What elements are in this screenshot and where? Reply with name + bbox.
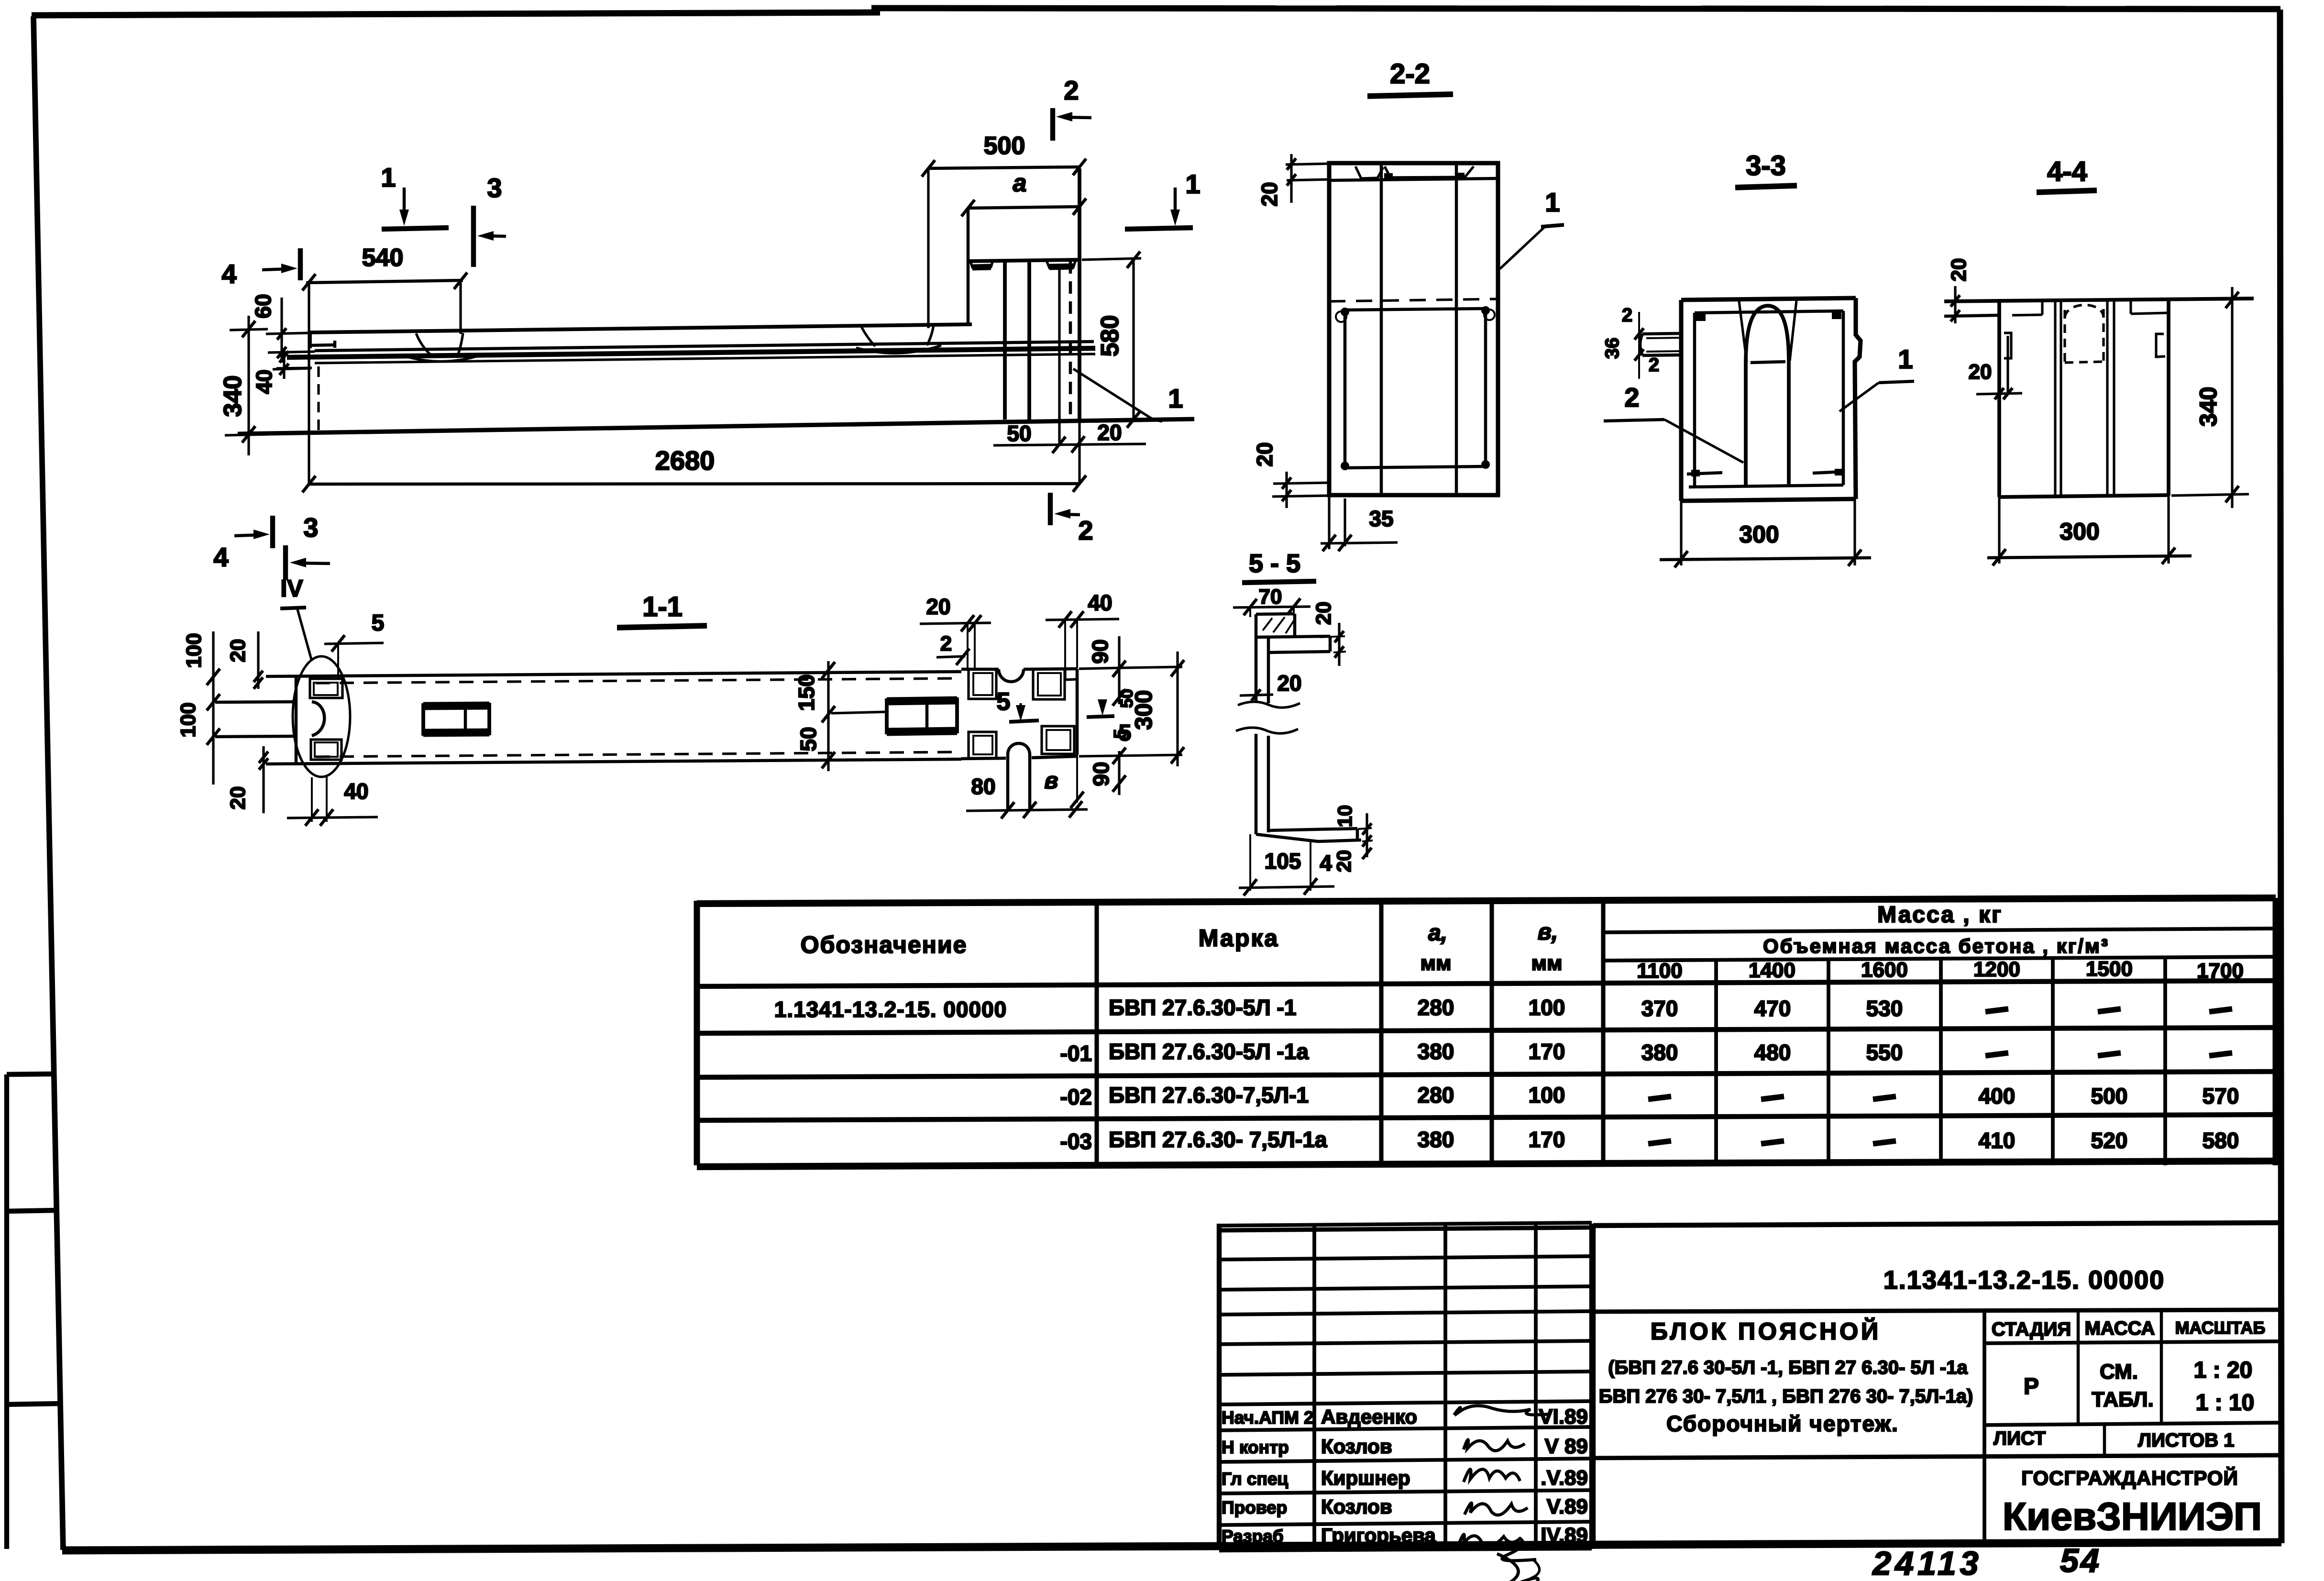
svg-text:5: 5 — [997, 688, 1011, 716]
svg-text:580: 580 — [2203, 1128, 2239, 1153]
svg-text:а,: а, — [1428, 920, 1447, 946]
svg-text:20: 20 — [1312, 602, 1335, 625]
svg-text:V 89: V 89 — [1544, 1435, 1588, 1458]
svg-text:Н контр: Н контр — [1222, 1437, 1289, 1457]
svg-text:1400: 1400 — [1749, 959, 1795, 982]
svg-text:2680: 2680 — [655, 445, 715, 475]
svg-text:2: 2 — [1649, 354, 1659, 376]
svg-text:570: 570 — [2203, 1083, 2239, 1108]
svg-text:1100: 1100 — [1637, 959, 1682, 983]
svg-text:ТАБЛ.: ТАБЛ. — [2092, 1388, 2154, 1411]
svg-text:90: 90 — [1088, 639, 1112, 663]
svg-text:БВП 27.6.30-5Л -1а: БВП 27.6.30-5Л -1а — [1109, 1039, 1309, 1064]
svg-text:1: 1 — [1168, 383, 1183, 413]
svg-text:3: 3 — [303, 512, 318, 542]
svg-text:20: 20 — [226, 786, 250, 810]
svg-text:70: 70 — [1259, 585, 1282, 608]
svg-text:МАСШТАБ: МАСШТАБ — [2175, 1318, 2266, 1338]
svg-text:Козлов: Козлов — [1321, 1435, 1392, 1458]
svg-text:Сборочный чертеж.: Сборочный чертеж. — [1666, 1411, 1899, 1436]
svg-text:170: 170 — [1529, 1127, 1565, 1152]
svg-text:520: 520 — [2091, 1128, 2128, 1153]
svg-text:VI.89: VI.89 — [1539, 1405, 1588, 1428]
svg-text:20: 20 — [1097, 420, 1122, 445]
svg-text:540: 540 — [362, 244, 404, 272]
svg-text:90: 90 — [1089, 762, 1113, 786]
svg-text:5: 5 — [1110, 729, 1130, 739]
svg-text:36: 36 — [1602, 338, 1623, 359]
svg-text:300: 300 — [1739, 521, 1779, 548]
svg-text:Р: Р — [2024, 1374, 2039, 1399]
svg-text:500: 500 — [2091, 1083, 2128, 1108]
svg-text:БВП 27.6.30- 7,5Л-1а: БВП 27.6.30- 7,5Л-1а — [1109, 1127, 1327, 1152]
svg-text:МАССА: МАССА — [2085, 1318, 2155, 1339]
svg-text:400: 400 — [1979, 1083, 2016, 1108]
svg-text:мм: мм — [1531, 951, 1562, 975]
svg-text:470: 470 — [1754, 996, 1791, 1021]
svg-text:3: 3 — [487, 173, 502, 203]
svg-text:.V.89: .V.89 — [1541, 1466, 1588, 1490]
svg-text:в: в — [1045, 768, 1058, 794]
svg-text:2: 2 — [940, 632, 952, 655]
svg-text:20: 20 — [1333, 850, 1355, 873]
svg-text:10: 10 — [1333, 805, 1356, 828]
svg-text:1.1341-13.2-15. 00000: 1.1341-13.2-15. 00000 — [1883, 1266, 2165, 1294]
svg-text:80: 80 — [971, 774, 995, 799]
svg-text:20: 20 — [1969, 360, 1992, 384]
svg-text:20: 20 — [1252, 442, 1277, 466]
svg-text:Объемная масса бетона , кг/м: Объемная масса бетона , кг/м³ — [1763, 935, 2109, 957]
svg-text:1: 1 — [1898, 344, 1913, 374]
svg-text:5: 5 — [372, 610, 385, 636]
svg-text:1: 1 — [1185, 169, 1200, 199]
svg-text:280: 280 — [1418, 1083, 1454, 1107]
svg-text:580: 580 — [1096, 315, 1124, 357]
svg-text:300: 300 — [2060, 518, 2099, 545]
svg-text:1-1: 1-1 — [642, 591, 683, 622]
svg-text:a: a — [1013, 169, 1027, 197]
svg-text:ЛИСТ: ЛИСТ — [1994, 1428, 2046, 1449]
svg-text:СТАДИЯ: СТАДИЯ — [1992, 1319, 2071, 1340]
svg-text:-02: -02 — [1060, 1084, 1092, 1109]
svg-text:380: 380 — [1418, 1039, 1454, 1064]
svg-text:Козлов: Козлов — [1321, 1495, 1392, 1518]
svg-text:500: 500 — [984, 132, 1025, 160]
svg-text:1: 1 — [381, 162, 396, 192]
svg-text:Нач.АПМ 2: Нач.АПМ 2 — [1222, 1408, 1314, 1427]
svg-text:20: 20 — [1947, 258, 1971, 282]
svg-text:4: 4 — [1320, 851, 1332, 875]
svg-text:Григорьева: Григорьева — [1321, 1524, 1436, 1547]
svg-text:1 : 20: 1 : 20 — [2194, 1358, 2253, 1383]
svg-text:1.1341-13.2-15. 00000: 1.1341-13.2-15. 00000 — [774, 997, 1007, 1022]
svg-text:Киршнер: Киршнер — [1321, 1467, 1410, 1489]
svg-text:2: 2 — [1622, 305, 1632, 326]
svg-text:480: 480 — [1754, 1040, 1791, 1065]
svg-text:380: 380 — [1641, 1040, 1678, 1065]
svg-text:35: 35 — [1369, 506, 1393, 531]
svg-text:20: 20 — [1257, 182, 1282, 206]
svg-text:БВП 276 30- 7,5Л1 , БВП 276 3: БВП 276 30- 7,5Л1 , БВП 276 30- 7,5Л-1а) — [1599, 1386, 1973, 1407]
svg-text:40: 40 — [1088, 590, 1112, 615]
svg-text:-01: -01 — [1060, 1041, 1092, 1066]
svg-text:410: 410 — [1979, 1128, 2016, 1153]
svg-text:4: 4 — [213, 542, 228, 572]
svg-text:50: 50 — [796, 727, 821, 751]
svg-text:54: 54 — [2060, 1542, 2101, 1579]
svg-text:мм: мм — [1420, 951, 1451, 975]
svg-text:ГОСГРАЖДАНСТРОЙ: ГОСГРАЖДАНСТРОЙ — [2021, 1466, 2238, 1489]
svg-text:Марка: Марка — [1199, 925, 1279, 951]
svg-text:2: 2 — [1078, 515, 1093, 545]
svg-text:БЛОК ПОЯСНОЙ: БЛОК ПОЯСНОЙ — [1651, 1317, 1881, 1345]
svg-text:340: 340 — [2195, 387, 2222, 426]
svg-text:Провер: Провер — [1222, 1498, 1287, 1517]
svg-text:Гл спец: Гл спец — [1222, 1469, 1288, 1489]
svg-text:20: 20 — [926, 594, 950, 619]
svg-text:-03: -03 — [1060, 1129, 1092, 1154]
svg-text:150: 150 — [794, 674, 819, 711]
svg-text:550: 550 — [1866, 1040, 1903, 1065]
svg-text:100: 100 — [176, 702, 200, 737]
svg-text:60: 60 — [251, 294, 275, 318]
svg-text:1 : 10: 1 : 10 — [2196, 1390, 2255, 1415]
svg-text:280: 280 — [1418, 995, 1454, 1020]
svg-text:100: 100 — [1529, 1083, 1565, 1107]
svg-text:170: 170 — [1529, 1039, 1565, 1064]
svg-text:ЛИСТОВ 1: ЛИСТОВ 1 — [2138, 1430, 2235, 1451]
svg-text:1700: 1700 — [2197, 959, 2244, 983]
svg-text:3-3: 3-3 — [1746, 150, 1786, 181]
svg-text:100: 100 — [182, 633, 206, 668]
svg-text:IV.89: IV.89 — [1541, 1524, 1588, 1547]
svg-text:340: 340 — [219, 376, 247, 417]
svg-text:Масса , кг: Масса , кг — [1877, 902, 2003, 928]
svg-text:50: 50 — [1007, 421, 1031, 446]
svg-text:1600: 1600 — [1861, 958, 1908, 982]
svg-text:380: 380 — [1418, 1127, 1454, 1152]
svg-text:50: 50 — [1117, 689, 1136, 708]
svg-text:1500: 1500 — [2086, 957, 2133, 981]
svg-text:4: 4 — [221, 259, 236, 289]
svg-text:100: 100 — [1529, 995, 1565, 1020]
svg-text:2-2: 2-2 — [1390, 58, 1430, 89]
svg-text:V.89: V.89 — [1547, 1495, 1588, 1518]
svg-text:24113: 24113 — [1872, 1545, 1982, 1581]
svg-text:СМ.: СМ. — [2100, 1360, 2138, 1383]
svg-text:370: 370 — [1641, 996, 1678, 1021]
svg-text:КиевЗНИИЭП: КиевЗНИИЭП — [2003, 1495, 2262, 1538]
svg-text:БВП 27.6.30-5Л -1: БВП 27.6.30-5Л -1 — [1109, 995, 1296, 1020]
svg-text:Разраб: Разраб — [1222, 1526, 1284, 1546]
svg-text:1: 1 — [1545, 187, 1560, 217]
svg-text:в,: в, — [1538, 919, 1558, 945]
svg-text:2: 2 — [1064, 75, 1079, 105]
svg-text:Обозначение: Обозначение — [801, 931, 968, 958]
svg-text:20: 20 — [226, 639, 250, 663]
svg-text:(БВП 27.6 30-5Л -1, БВП 27 6.: (БВП 27.6 30-5Л -1, БВП 27 6.30- 5Л -1а — [1608, 1357, 1968, 1378]
svg-text:530: 530 — [1866, 996, 1903, 1021]
svg-text:105: 105 — [1265, 849, 1301, 873]
svg-text:БВП 27.6.30-7,5Л-1: БВП 27.6.30-7,5Л-1 — [1109, 1083, 1309, 1107]
svg-text:1200: 1200 — [1973, 958, 2020, 981]
svg-text:5 - 5: 5 - 5 — [1249, 549, 1300, 578]
svg-text:20: 20 — [1277, 671, 1301, 696]
svg-text:IV: IV — [280, 575, 303, 602]
svg-text:Авдеенко: Авдеенко — [1321, 1405, 1417, 1428]
svg-text:4-4: 4-4 — [2047, 156, 2087, 187]
svg-text:40: 40 — [344, 779, 368, 804]
svg-text:2: 2 — [1624, 382, 1639, 412]
svg-text:40: 40 — [252, 369, 276, 394]
